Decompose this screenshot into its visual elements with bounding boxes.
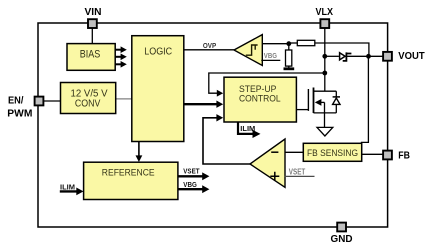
resistor R2 series to VOUT bbox=[289, 40, 369, 56]
svg-text:CONTROL: CONTROL bbox=[239, 94, 281, 105]
wire ILIM arrow from STEP-UP bottom bbox=[238, 122, 253, 134]
op-amp OVP comparator bbox=[234, 35, 262, 66]
diode D2 body diode of Q1 bbox=[333, 91, 340, 113]
pad FB bbox=[383, 151, 392, 160]
wire ILIM into REFERENCE bbox=[60, 190, 77, 192]
op-amp U1 error amplifier bbox=[250, 139, 285, 187]
block REFERENCE bbox=[84, 162, 178, 199]
svg-text:VOUT: VOUT bbox=[398, 51, 424, 62]
block STEP-UP CONTROL bbox=[224, 77, 296, 122]
wire EN/PWM pad to CONV bbox=[44, 100, 61, 102]
resistor R1 shunt bbox=[286, 44, 292, 68]
wire LOGIC to STEP-UP thick arrow bbox=[184, 103, 217, 105]
pad EN/PWM bbox=[35, 97, 44, 106]
wire FB SENSING to FB pad bbox=[362, 153, 383, 155]
node junction dot bbox=[286, 41, 291, 46]
wire inverting input from FB SENSING bbox=[285, 151, 303, 153]
svg-text:BIAS: BIAS bbox=[80, 49, 101, 61]
IC outline border bbox=[38, 23, 388, 227]
svg-text:VBG: VBG bbox=[264, 53, 278, 60]
wire VLX vertical bbox=[324, 28, 326, 91]
svg-text:LOGIC: LOGIC bbox=[144, 47, 172, 58]
wire CONV to LOGIC bbox=[116, 98, 132, 100]
svg-text:FB: FB bbox=[398, 150, 410, 161]
block FB SENSING bbox=[303, 143, 361, 161]
pad VOUT bbox=[383, 52, 392, 61]
block BIAS bbox=[67, 44, 115, 71]
svg-text:CONV: CONV bbox=[75, 99, 101, 110]
svg-text:VIN: VIN bbox=[85, 7, 102, 18]
svg-text:PWM: PWM bbox=[7, 108, 32, 119]
wire LOGIC to REFERENCE arrow bbox=[138, 142, 140, 157]
svg-text:VSET: VSET bbox=[183, 169, 200, 176]
wire comparator input to node bbox=[262, 43, 289, 45]
block 12V/5V CONV bbox=[61, 83, 116, 114]
node dot diode/VOUT branch bbox=[366, 54, 371, 59]
wire OVP output to LOGIC bbox=[184, 49, 234, 51]
wire VIN pad to BIAS bbox=[91, 28, 93, 44]
svg-text:EN/: EN/ bbox=[8, 95, 24, 106]
wire error-amp output to STEP-UP bbox=[203, 118, 250, 164]
svg-text:VLX: VLX bbox=[316, 7, 334, 18]
pad VLX bbox=[320, 19, 329, 28]
wire VSET noninverting input bbox=[285, 175, 315, 177]
svg-text:REFERENCE: REFERENCE bbox=[102, 167, 155, 178]
svg-text:GND: GND bbox=[331, 234, 353, 245]
svg-text:VSET: VSET bbox=[289, 168, 306, 177]
pad GND bbox=[337, 223, 346, 232]
ground bar under R1 bbox=[284, 67, 295, 70]
node dot VLX/tap bbox=[322, 71, 327, 76]
arrows BIAS to LOGIC bbox=[115, 50, 121, 65]
arrow VSET out of REFERENCE bbox=[178, 175, 203, 177]
block LOGIC bbox=[132, 36, 184, 142]
node dot VLX/diode bbox=[322, 54, 327, 59]
arrow VBG out of REFERENCE bbox=[178, 188, 203, 190]
svg-text:OVP: OVP bbox=[203, 43, 217, 50]
ground under Q1 source bbox=[317, 113, 333, 136]
wire VBG input bbox=[261, 59, 280, 61]
pad VIN bbox=[88, 19, 97, 28]
svg-text:FB SENSING: FB SENSING bbox=[307, 148, 358, 158]
transistor Q1 NMOS bbox=[296, 88, 336, 114]
wire VOUT node down to FB SENSING bbox=[362, 56, 369, 143]
wire drain-node tap into STEP-UP bbox=[209, 73, 325, 93]
svg-text:VBG: VBG bbox=[183, 182, 197, 189]
diode D1 schottky to VOUT bbox=[325, 52, 383, 61]
